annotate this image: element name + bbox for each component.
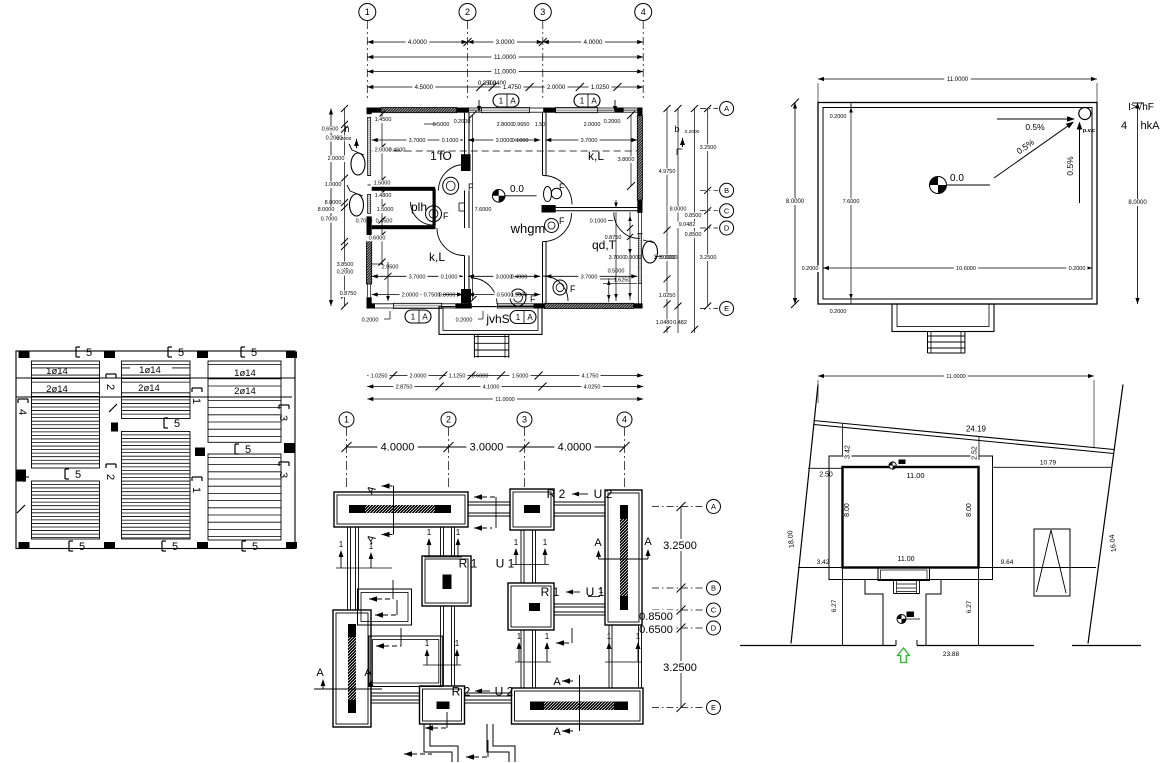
dim row4 tick xyxy=(613,83,621,91)
rc1 1.0250 xyxy=(656,293,677,300)
svg-text:2.0000: 2.0000 xyxy=(410,374,427,380)
slab bracket 5 bot2 xyxy=(161,541,163,551)
svg-text:p.v.c: p.v.c xyxy=(1083,128,1095,134)
svg-text:2.0000: 2.0000 xyxy=(328,156,345,162)
slab column bottom xyxy=(197,542,208,549)
site ground line b xyxy=(917,645,1034,647)
section tag 1-A top left xyxy=(493,94,519,107)
svg-text:4.5000: 4.5000 xyxy=(415,85,434,91)
svg-text:3.7000: 3.7000 xyxy=(581,138,598,144)
svg-text:3: 3 xyxy=(277,415,289,421)
fnd dim tick xyxy=(444,442,454,452)
roof slope arrow vertical xyxy=(1079,126,1081,203)
svg-text:24.19: 24.19 xyxy=(966,425,987,434)
roof inner left dim xyxy=(850,103,852,305)
svg-text:0.7000: 0.7000 xyxy=(356,219,373,225)
tie beam grid2 upper xyxy=(440,527,442,556)
below dim row3 line xyxy=(367,398,643,400)
svg-text:11.0000: 11.0000 xyxy=(494,69,516,76)
svg-text:1.0480: 1.0480 xyxy=(656,320,673,326)
window tag oval 1 xyxy=(351,153,365,175)
dashed leader left mid2 xyxy=(375,614,397,616)
slab bracket 5 top1 xyxy=(75,347,77,357)
section tag 1-A top right xyxy=(574,94,600,107)
left chain tick xyxy=(341,175,348,182)
svg-text:2: 2 xyxy=(465,7,470,17)
svg-text:F: F xyxy=(443,211,449,221)
svg-text:0.8500: 0.8500 xyxy=(685,232,702,238)
right chain4 xyxy=(707,109,709,307)
svg-text:9.0482: 9.0482 xyxy=(679,222,696,228)
door arc entrance xyxy=(471,278,497,304)
svg-text:k,L: k,L xyxy=(429,250,445,264)
north arrow left xyxy=(354,139,359,146)
svg-text:1: 1 xyxy=(499,96,504,105)
lc 2.0000 xyxy=(325,156,346,163)
svg-text:4.0000: 4.0000 xyxy=(408,39,427,46)
footing strip bottom-right xyxy=(512,688,644,724)
int dim bottom row2 xyxy=(372,294,463,296)
tie beam grid3 lower xyxy=(520,630,522,688)
fnd step shape 1 xyxy=(424,724,452,762)
rc1 tick xyxy=(664,227,671,234)
left chain overall line xyxy=(330,109,332,307)
site setback rect xyxy=(829,456,993,580)
left wall window 2 xyxy=(368,194,371,213)
svg-text:3.7000: 3.7000 xyxy=(581,274,598,280)
left inner chain line xyxy=(381,114,383,265)
site boundary left xyxy=(791,385,818,644)
porch stairs rails xyxy=(473,334,475,357)
row bubble C xyxy=(720,204,734,218)
window tag oval K xyxy=(643,241,658,263)
roof porch outline xyxy=(892,304,994,332)
rc2 8.0000 xyxy=(667,206,688,213)
svg-text:9.64: 9.64 xyxy=(1001,559,1014,566)
svg-text:8.0000: 8.0000 xyxy=(1128,200,1147,206)
svg-text:23.88: 23.88 xyxy=(943,651,960,658)
int dim bottom right xyxy=(545,275,637,277)
tie line pair f xyxy=(605,661,642,663)
svg-text:2.0000: 2.0000 xyxy=(547,85,566,91)
site building rect xyxy=(843,467,979,568)
dim row4 tick xyxy=(489,83,497,91)
svg-text:1: 1 xyxy=(190,398,202,404)
tie line pair e xyxy=(515,661,551,663)
svg-text:3: 3 xyxy=(522,415,527,425)
slab bracket 5 bot1 xyxy=(68,541,70,551)
fnd grid centerline xyxy=(346,427,348,489)
svg-text:1: 1 xyxy=(369,542,374,551)
svg-text:0.8750: 0.8750 xyxy=(605,235,622,241)
svg-text:7.6000: 7.6000 xyxy=(843,199,860,205)
svg-text:A: A xyxy=(711,502,716,511)
svg-text:4.0000: 4.0000 xyxy=(381,442,415,454)
interior wall row B left xyxy=(372,187,435,191)
fnd row bubble C xyxy=(707,603,721,617)
left wall hatched segment xyxy=(367,242,372,284)
svg-text:11.0000: 11.0000 xyxy=(946,374,965,380)
left wall mullion xyxy=(368,175,371,177)
svg-text:11.00: 11.00 xyxy=(898,556,915,563)
slab column interior C3 xyxy=(195,448,205,457)
svg-text:2: 2 xyxy=(104,474,116,480)
tie mark 1 arrow 2 xyxy=(370,556,372,568)
left wall vent gap xyxy=(367,284,369,297)
dashed leader left mid xyxy=(369,598,393,600)
rc1 tick xyxy=(664,105,671,112)
tie mark 1 arrow 6 xyxy=(544,552,546,565)
fnd right tick xyxy=(677,703,686,712)
slab bracket 3 right1 xyxy=(277,405,289,421)
bd 4.0250 xyxy=(581,384,602,391)
svg-text:3.2500: 3.2500 xyxy=(700,145,717,151)
svg-text:1.5000: 1.5000 xyxy=(512,374,529,380)
left wall corner block bottom xyxy=(367,297,372,308)
svg-text:1.6250: 1.6250 xyxy=(614,278,631,284)
dashed leader U1 xyxy=(556,642,572,644)
svg-text:2ø14: 2ø14 xyxy=(46,384,68,395)
svg-text:1.5000: 1.5000 xyxy=(377,207,394,213)
rc3 9.0482 xyxy=(676,222,697,229)
tie beam grid1 vertical xyxy=(347,527,349,610)
svg-text:3.42: 3.42 xyxy=(817,559,830,566)
rc4 3.2500a xyxy=(697,145,718,152)
svg-text:4.0250: 4.0250 xyxy=(584,385,601,391)
fnd grid centerline xyxy=(524,427,526,489)
slab bracket 2 gap1 mid xyxy=(104,464,116,480)
svg-text:0.2000: 0.2000 xyxy=(685,129,700,135)
slab column top xyxy=(197,352,208,359)
svg-text:4.0000: 4.0000 xyxy=(584,39,603,46)
dim row4 line xyxy=(367,86,643,88)
bottom wall pier xyxy=(455,303,471,308)
bottom wall corner block xyxy=(367,303,376,308)
section tag 1-A bottom left xyxy=(405,310,431,323)
svg-text:0.1000: 0.1000 xyxy=(442,138,459,144)
slab column top xyxy=(286,352,297,359)
svg-text:0.6000: 0.6000 xyxy=(472,374,489,380)
tie mark 1 arrow 1 xyxy=(340,554,342,568)
interior wall grid2 pier low xyxy=(461,289,471,303)
site boundary top double xyxy=(814,421,1115,450)
rc4 0.8500b xyxy=(682,232,703,239)
svg-text:1: 1 xyxy=(517,632,522,641)
site dim 6.27 right xyxy=(966,598,974,615)
window center arrow top xyxy=(477,106,481,112)
roof top dim xyxy=(818,78,1097,80)
svg-text:0.8500: 0.8500 xyxy=(685,213,702,219)
wc fixture 2 xyxy=(426,206,442,222)
left inner tick xyxy=(379,204,386,211)
svg-text:0.5000: 0.5000 xyxy=(433,122,450,128)
dim 1.0250 xyxy=(589,84,612,91)
slab column bottom xyxy=(286,542,297,549)
svg-text:1: 1 xyxy=(190,487,202,493)
roof porch stairs xyxy=(927,332,929,354)
site porch stairs xyxy=(893,581,895,594)
svg-text:3.2500: 3.2500 xyxy=(663,662,697,674)
svg-text:10.79: 10.79 xyxy=(1040,460,1057,467)
fnd dim 0.8500 xyxy=(636,610,676,622)
svg-text:4.9750: 4.9750 xyxy=(659,169,676,175)
svg-text:1: 1 xyxy=(425,639,430,648)
bottom wall window a xyxy=(375,303,393,305)
dashed leader top pair xyxy=(474,496,496,498)
svg-text:1: 1 xyxy=(411,312,416,321)
wc fixture 6 xyxy=(553,280,567,295)
roof right dim xyxy=(1137,103,1139,305)
door arc qdT xyxy=(614,213,640,239)
slab panel 1 bottom xyxy=(32,481,100,539)
svg-text:1.0250: 1.0250 xyxy=(659,293,676,299)
int dim line row mid xyxy=(468,139,540,141)
top wall window 2 xyxy=(481,108,529,113)
left chain tick xyxy=(341,292,348,299)
bd 1.1250 xyxy=(446,373,467,380)
svg-text:0.2000: 0.2000 xyxy=(362,318,379,324)
svg-text:1.0000: 1.0000 xyxy=(325,182,342,188)
interior wall row D left xyxy=(372,225,436,229)
roof dim 7.6000 xyxy=(840,199,861,206)
right chain1 xyxy=(666,109,668,334)
fnd step shape 2 xyxy=(487,724,509,762)
fnd right dim line xyxy=(680,507,682,708)
site green arrow xyxy=(898,648,910,663)
tie beam grid2 mid xyxy=(440,606,442,686)
svg-text:0.1000: 0.1000 xyxy=(590,219,607,225)
porch stair rung2 xyxy=(474,342,508,344)
roof slope arrow diagonal xyxy=(994,125,1070,179)
site step path left xyxy=(829,580,883,646)
fnd dim 3.2500 a xyxy=(660,539,700,551)
fnd right tick xyxy=(677,624,686,633)
svg-text:1.4750: 1.4750 xyxy=(503,85,522,91)
svg-text:3: 3 xyxy=(540,7,545,17)
site gate tree rect xyxy=(1034,529,1070,596)
slab bracket 5 bot3 xyxy=(241,541,243,551)
fnd row bubble D xyxy=(707,621,721,635)
svg-text:0.1000: 0.1000 xyxy=(512,138,529,144)
fnd dim tick xyxy=(342,442,352,452)
svg-text:E: E xyxy=(711,703,716,712)
site building edge ext left xyxy=(842,568,844,646)
left inner tick xyxy=(379,259,386,266)
top wall window 1 xyxy=(469,107,481,109)
footing bar top-left xyxy=(349,505,451,513)
svg-text:5: 5 xyxy=(178,347,184,359)
svg-text:1'fO: 1'fO xyxy=(430,149,452,163)
window tag oval 2 xyxy=(350,194,364,216)
door arc whgm xyxy=(543,213,572,242)
int vdim 7.6000 xyxy=(472,115,474,300)
svg-text:F: F xyxy=(570,284,576,294)
bottom wall jamb xyxy=(442,303,456,305)
fnd right tick xyxy=(677,606,686,615)
rc4 tick xyxy=(704,225,711,232)
svg-text:0.8500: 0.8500 xyxy=(639,611,673,623)
slab full-width rebar line xyxy=(16,377,295,379)
slab bracket 5 mid1 xyxy=(64,469,66,479)
fnd dim 4.0000 a xyxy=(377,441,417,453)
left chain tick xyxy=(341,204,348,211)
svg-text:3.7000: 3.7000 xyxy=(409,274,426,280)
top wall corner block xyxy=(367,108,381,113)
footing bar bottom-right xyxy=(530,702,628,711)
svg-text:3.0000: 3.0000 xyxy=(496,39,515,46)
left chain tick xyxy=(341,105,348,112)
interior wall row C right xyxy=(556,207,638,209)
svg-text:4: 4 xyxy=(16,409,28,415)
svg-text:6.27: 6.27 xyxy=(831,599,838,612)
slab label 1o14 p1 xyxy=(38,369,80,374)
tie mark 1 arrow 12 xyxy=(637,646,639,662)
svg-text:F: F xyxy=(559,216,565,226)
svg-text:0.0: 0.0 xyxy=(510,184,524,195)
porch stair rung3 xyxy=(474,349,508,351)
top wall corner block right xyxy=(637,108,642,113)
dashed leader bot mid xyxy=(466,756,488,758)
svg-text:1.0250: 1.0250 xyxy=(591,85,610,91)
site porch xyxy=(878,568,930,581)
left chain 2 line xyxy=(344,109,346,307)
dim row4 tick xyxy=(526,83,534,91)
svg-text:2.50: 2.50 xyxy=(819,472,833,479)
slab column interior B2 xyxy=(111,423,118,432)
svg-text:F: F xyxy=(468,182,474,192)
floor plan grid bubble 3 xyxy=(534,4,551,21)
lic 0.6000 xyxy=(366,235,387,242)
int dim bottom mid xyxy=(468,275,540,277)
lic 2.0000 xyxy=(372,147,393,154)
svg-text:3.7000: 3.7000 xyxy=(409,138,426,144)
svg-text:1: 1 xyxy=(455,639,460,648)
svg-text:0.2000: 0.2000 xyxy=(1069,266,1086,272)
svg-text:1: 1 xyxy=(545,632,550,641)
svg-text:1ø14: 1ø14 xyxy=(46,366,68,377)
svg-text:1: 1 xyxy=(514,538,519,547)
svg-text:0.6500: 0.6500 xyxy=(639,624,673,636)
svg-text:A: A xyxy=(594,537,602,549)
tie beam R2-botright xyxy=(465,692,512,694)
tie beam top 2-3 xyxy=(554,501,605,503)
lic 1.5000b xyxy=(374,207,395,214)
bottom wall entrance opening xyxy=(470,303,472,308)
left chain tick xyxy=(341,267,348,274)
bottom wall window b xyxy=(497,303,533,305)
left chain tick xyxy=(341,243,348,250)
fnd grid bubble 2 xyxy=(441,412,456,427)
site boundary right xyxy=(1088,385,1123,644)
svg-text:0.1000: 0.1000 xyxy=(441,274,458,280)
svg-text:1ø14: 1ø14 xyxy=(139,365,161,376)
floor plan grid bubble 1 xyxy=(359,4,376,21)
bd 4.1000 xyxy=(480,384,501,391)
svg-text:2ø14: 2ø14 xyxy=(138,383,160,394)
slab bracket 1 gap2 top xyxy=(190,388,202,404)
footing R2 bottom xyxy=(420,686,465,724)
int dim bottom row xyxy=(372,275,463,277)
left chain tick xyxy=(341,303,348,310)
svg-text:E: E xyxy=(724,304,729,313)
bottom wall hatched band xyxy=(545,303,634,308)
svg-text:whgm: whgm xyxy=(510,221,546,236)
svg-text:2: 2 xyxy=(446,415,451,425)
svg-text:0.0: 0.0 xyxy=(950,173,964,184)
svg-text:0.2000: 0.2000 xyxy=(456,318,473,324)
tie beam top 1-2 xyxy=(468,501,510,503)
svg-text:A: A xyxy=(644,536,652,548)
slab label 2o14 p1 xyxy=(36,386,80,393)
tie line pair d xyxy=(423,664,461,666)
svg-text:D: D xyxy=(711,624,717,633)
dim 2.0000 xyxy=(545,84,568,91)
site dim 6.27 left xyxy=(831,597,839,614)
svg-text:I>√hF: I>√hF xyxy=(1128,101,1154,113)
svg-text:3.8000: 3.8000 xyxy=(618,157,635,163)
svg-text:2ø14: 2ø14 xyxy=(234,386,256,397)
rc4 0.8500a xyxy=(682,213,703,220)
svg-text:A: A xyxy=(591,96,597,105)
slab bracket 5 top3 xyxy=(240,347,242,357)
svg-text:1: 1 xyxy=(339,540,344,549)
bd 4.1750 xyxy=(579,373,600,380)
svg-text:1: 1 xyxy=(344,415,349,425)
interior wall grid3 upper thin xyxy=(542,113,544,176)
below row1 tick xyxy=(535,372,543,380)
site marker top xyxy=(889,462,896,469)
dashed beam line xyxy=(372,150,638,152)
top wall pier 2 xyxy=(543,108,555,113)
svg-text:1: 1 xyxy=(516,313,521,322)
slab bracket 5 mid3 xyxy=(234,444,236,454)
floor plan grid bubble 2 xyxy=(459,4,476,21)
roof top ext lines xyxy=(817,83,819,102)
wc fixture 4 xyxy=(545,219,559,233)
svg-text:2.0000: 2.0000 xyxy=(584,122,601,128)
footing bar left xyxy=(348,624,356,713)
site line 10.79 xyxy=(993,466,1113,468)
slab slash 2 xyxy=(109,404,117,412)
rc4 tick xyxy=(704,303,711,310)
int dim line row right xyxy=(545,139,637,141)
rc4 3.2500b xyxy=(697,255,718,262)
tie mark 1 arrow 9 xyxy=(518,646,520,662)
svg-text:2.0000: 2.0000 xyxy=(402,293,419,299)
site line y567 left xyxy=(798,567,843,569)
site label 18.00 xyxy=(786,528,796,551)
door arc plh xyxy=(411,202,434,225)
lc 0.2000b xyxy=(334,269,355,276)
svg-text:2.8750: 2.8750 xyxy=(396,385,413,391)
svg-text:R 2: R 2 xyxy=(547,487,566,501)
svg-text:1: 1 xyxy=(636,632,641,641)
row bubble E xyxy=(720,302,734,316)
tie mark 1 arrow 4 xyxy=(457,542,459,557)
slab column right edge xyxy=(284,443,295,453)
svg-text:k,L: k,L xyxy=(588,149,604,163)
int vdim right room xyxy=(615,212,617,301)
roof level marker xyxy=(930,177,947,194)
tie mark 1 arrow 11 xyxy=(608,646,610,662)
site top dim xyxy=(818,375,1094,377)
int vdim 3.8000 xyxy=(630,115,632,186)
svg-text:B: B xyxy=(711,584,716,593)
dim 4.5000 xyxy=(412,84,435,91)
svg-text:3.0000: 3.0000 xyxy=(496,138,513,144)
svg-text:1ø14: 1ø14 xyxy=(234,368,256,379)
tie line pair a xyxy=(336,567,392,569)
